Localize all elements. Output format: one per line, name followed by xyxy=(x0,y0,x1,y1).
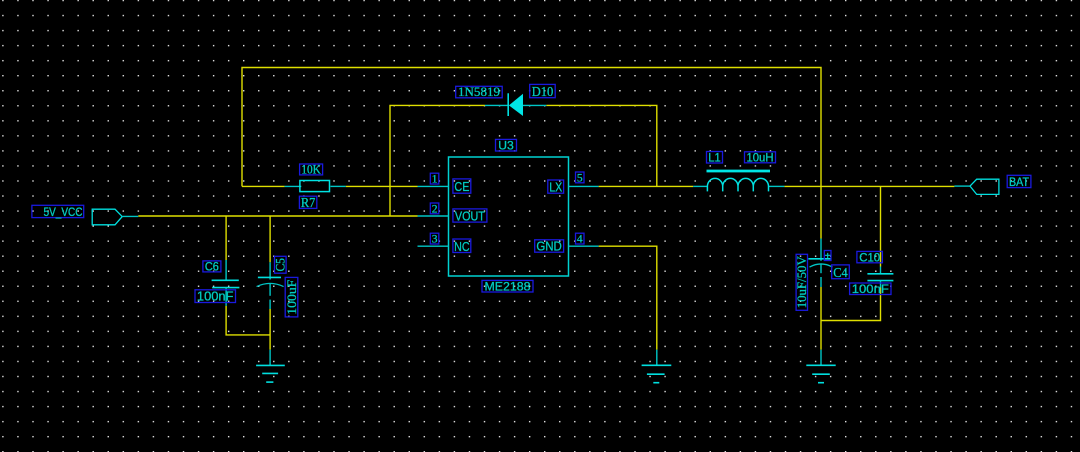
inductor L1 xyxy=(693,171,784,191)
capacitor C4 electrolytic xyxy=(808,239,832,288)
svg-text:L1: L1 xyxy=(708,153,721,165)
capacitor C6 xyxy=(212,260,240,306)
svg-text:CE: CE xyxy=(454,179,469,194)
svg-text:100nF: 100nF xyxy=(197,290,234,304)
svg-text:GND: GND xyxy=(536,240,562,254)
pin name NC xyxy=(453,239,471,254)
svg-text:1: 1 xyxy=(432,174,438,186)
wire C5 bottom to ground xyxy=(269,309,271,350)
wire inductor to BAT port xyxy=(784,185,954,187)
svg-text:C5: C5 xyxy=(273,258,288,272)
label R7 xyxy=(299,195,316,210)
resistor R7 xyxy=(285,181,346,192)
svg-text:10uH: 10uH xyxy=(747,152,774,164)
capacitor C10 xyxy=(867,267,893,288)
label 1N5819 xyxy=(456,84,503,99)
label 5V_VCC xyxy=(32,205,84,219)
label plus C4 xyxy=(824,250,831,262)
IC U3 body xyxy=(449,157,569,276)
pin 3 NC xyxy=(418,245,449,247)
wire C4 bottom to ground xyxy=(820,287,822,350)
svg-text:100uF: 100uF xyxy=(284,280,299,315)
label C4 xyxy=(832,265,850,280)
svg-text:D10: D10 xyxy=(532,84,554,99)
label 100uF xyxy=(284,277,299,317)
wire diode cathode to VOUT net xyxy=(390,105,485,216)
svg-text:NC: NC xyxy=(454,239,470,254)
wire VOUT / 5V_VCC rail xyxy=(138,215,417,217)
svg-text:5V_VCC: 5V_VCC xyxy=(44,205,83,219)
wire GND pin to ground xyxy=(599,246,657,350)
svg-text:5: 5 xyxy=(577,173,583,185)
pin number 1 xyxy=(430,173,439,186)
label 10uH xyxy=(745,152,776,165)
svg-text:ME2188: ME2188 xyxy=(485,280,531,294)
label C5 xyxy=(273,256,288,273)
wire diode anode to LX net xyxy=(546,105,657,186)
pin name LX xyxy=(548,179,564,194)
pin name VOUT xyxy=(453,208,487,223)
wire LX pin to inductor xyxy=(599,185,694,187)
diode D10 xyxy=(485,93,546,116)
pin name GND xyxy=(535,240,564,254)
wire C4-C10 bottom link xyxy=(821,288,881,321)
svg-text:10K: 10K xyxy=(301,163,321,177)
label D10 xyxy=(530,84,556,99)
svg-text:C4: C4 xyxy=(833,265,848,280)
wire C6 top xyxy=(225,216,227,260)
pin 4 GND xyxy=(569,245,599,247)
svg-text:C6: C6 xyxy=(205,262,219,274)
svg-text:2: 2 xyxy=(432,204,438,216)
label 10uF/50V xyxy=(794,254,809,310)
label 100nF C10 xyxy=(850,282,891,296)
label BAT xyxy=(1007,175,1031,189)
label U3 xyxy=(496,139,517,153)
label L1 xyxy=(707,152,723,165)
pin number 3 xyxy=(430,233,439,246)
svg-text:+: + xyxy=(825,250,831,262)
port 5V_VCC xyxy=(92,209,138,225)
svg-text:R7: R7 xyxy=(301,195,316,210)
wire C5 top xyxy=(269,216,271,262)
svg-text:4: 4 xyxy=(577,234,583,246)
svg-text:C10: C10 xyxy=(859,252,880,264)
wire C10 top xyxy=(880,186,882,266)
ground below C5 xyxy=(256,350,285,382)
pin number 5 xyxy=(576,172,585,185)
svg-text:BAT: BAT xyxy=(1009,175,1030,189)
svg-text:U3: U3 xyxy=(498,139,514,153)
pin 2 VOUT xyxy=(418,215,449,217)
pin 5 LX xyxy=(569,185,599,187)
wire top loop: R7 left over to C4/BAT net xyxy=(242,68,821,239)
label ME2188 xyxy=(482,280,533,294)
wire CE net left segment xyxy=(242,185,285,187)
label 10K xyxy=(300,163,323,177)
label C6 xyxy=(203,261,221,274)
pin 1 CE xyxy=(418,185,449,187)
pin name CE xyxy=(453,179,471,194)
svg-text:100nF: 100nF xyxy=(852,282,889,296)
ground below C4 xyxy=(806,350,835,383)
wire C6 bottom to C5 xyxy=(226,306,270,335)
svg-text:3: 3 xyxy=(432,234,438,246)
svg-text:VOUT: VOUT xyxy=(455,208,485,223)
port BAT xyxy=(954,179,999,194)
svg-text:1N5819: 1N5819 xyxy=(458,84,500,99)
svg-text:LX: LX xyxy=(549,179,562,194)
ground below U3 xyxy=(642,350,672,383)
wire CE net right segment xyxy=(346,185,418,187)
capacitor C5 electrolytic xyxy=(257,262,284,309)
label C10 xyxy=(857,251,883,264)
svg-text:10uF/50V: 10uF/50V xyxy=(794,256,809,309)
pin number 4 xyxy=(576,233,585,246)
label 100nF C6 xyxy=(195,290,236,304)
pin number 2 xyxy=(430,203,439,216)
